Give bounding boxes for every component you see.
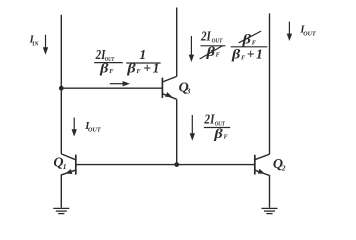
wire: Q3 emitter down to base rail — [176, 99, 178, 164]
svg-text:IN: IN — [31, 41, 38, 48]
current arrow I_OUT (above Q1) — [72, 118, 77, 137]
svg-text:2I: 2I — [200, 28, 211, 43]
svg-text:F: F — [109, 68, 114, 75]
svg-text:+: + — [247, 47, 255, 62]
svg-text:OUT: OUT — [303, 30, 316, 37]
svg-text:β: β — [99, 61, 109, 76]
svg-text:F: F — [241, 54, 246, 61]
wire: middle line down to Q3 collector — [176, 8, 178, 77]
strike through beta_F numerator — [239, 31, 261, 43]
svg-text:F: F — [252, 39, 257, 46]
ground under Q1 — [53, 208, 69, 213]
current arrow down (top middle label group) — [189, 36, 194, 62]
svg-text:1: 1 — [256, 47, 263, 62]
node: base rail junction dot — [174, 162, 179, 167]
transistor Q1 — [61, 154, 76, 208]
wire: output collector line (right) — [269, 13, 271, 154]
svg-text:β: β — [213, 126, 223, 141]
wire: Q3 base wire from input node — [61, 87, 162, 89]
current arrow I_OUT (top right) — [287, 22, 292, 41]
svg-text:2I: 2I — [204, 111, 216, 126]
current arrow into Q3 base — [110, 81, 130, 86]
ground under Q2 — [262, 208, 278, 213]
current arrow down (middle 2I_OUT/beta_F) — [190, 115, 195, 141]
node: input node junction dot — [59, 86, 64, 91]
transistor Q3 — [162, 76, 176, 99]
wire: base rail from Q1 to Q2 — [76, 164, 255, 166]
svg-text:3: 3 — [186, 87, 191, 96]
svg-text:1: 1 — [63, 162, 67, 171]
strike through beta_F — [200, 46, 223, 59]
svg-text:F: F — [224, 134, 229, 141]
current arrow I_IN — [43, 35, 48, 55]
svg-text:2: 2 — [281, 164, 286, 173]
svg-text:β: β — [126, 61, 136, 76]
svg-text:+: + — [143, 61, 151, 76]
wire: input collector line (left) — [60, 15, 62, 154]
svg-text:β: β — [231, 47, 241, 62]
transistor Q2 — [255, 154, 270, 207]
svg-text:OUT: OUT — [88, 127, 102, 134]
svg-text:1: 1 — [153, 61, 160, 76]
svg-text:F: F — [136, 68, 141, 75]
svg-text:F: F — [216, 52, 221, 59]
